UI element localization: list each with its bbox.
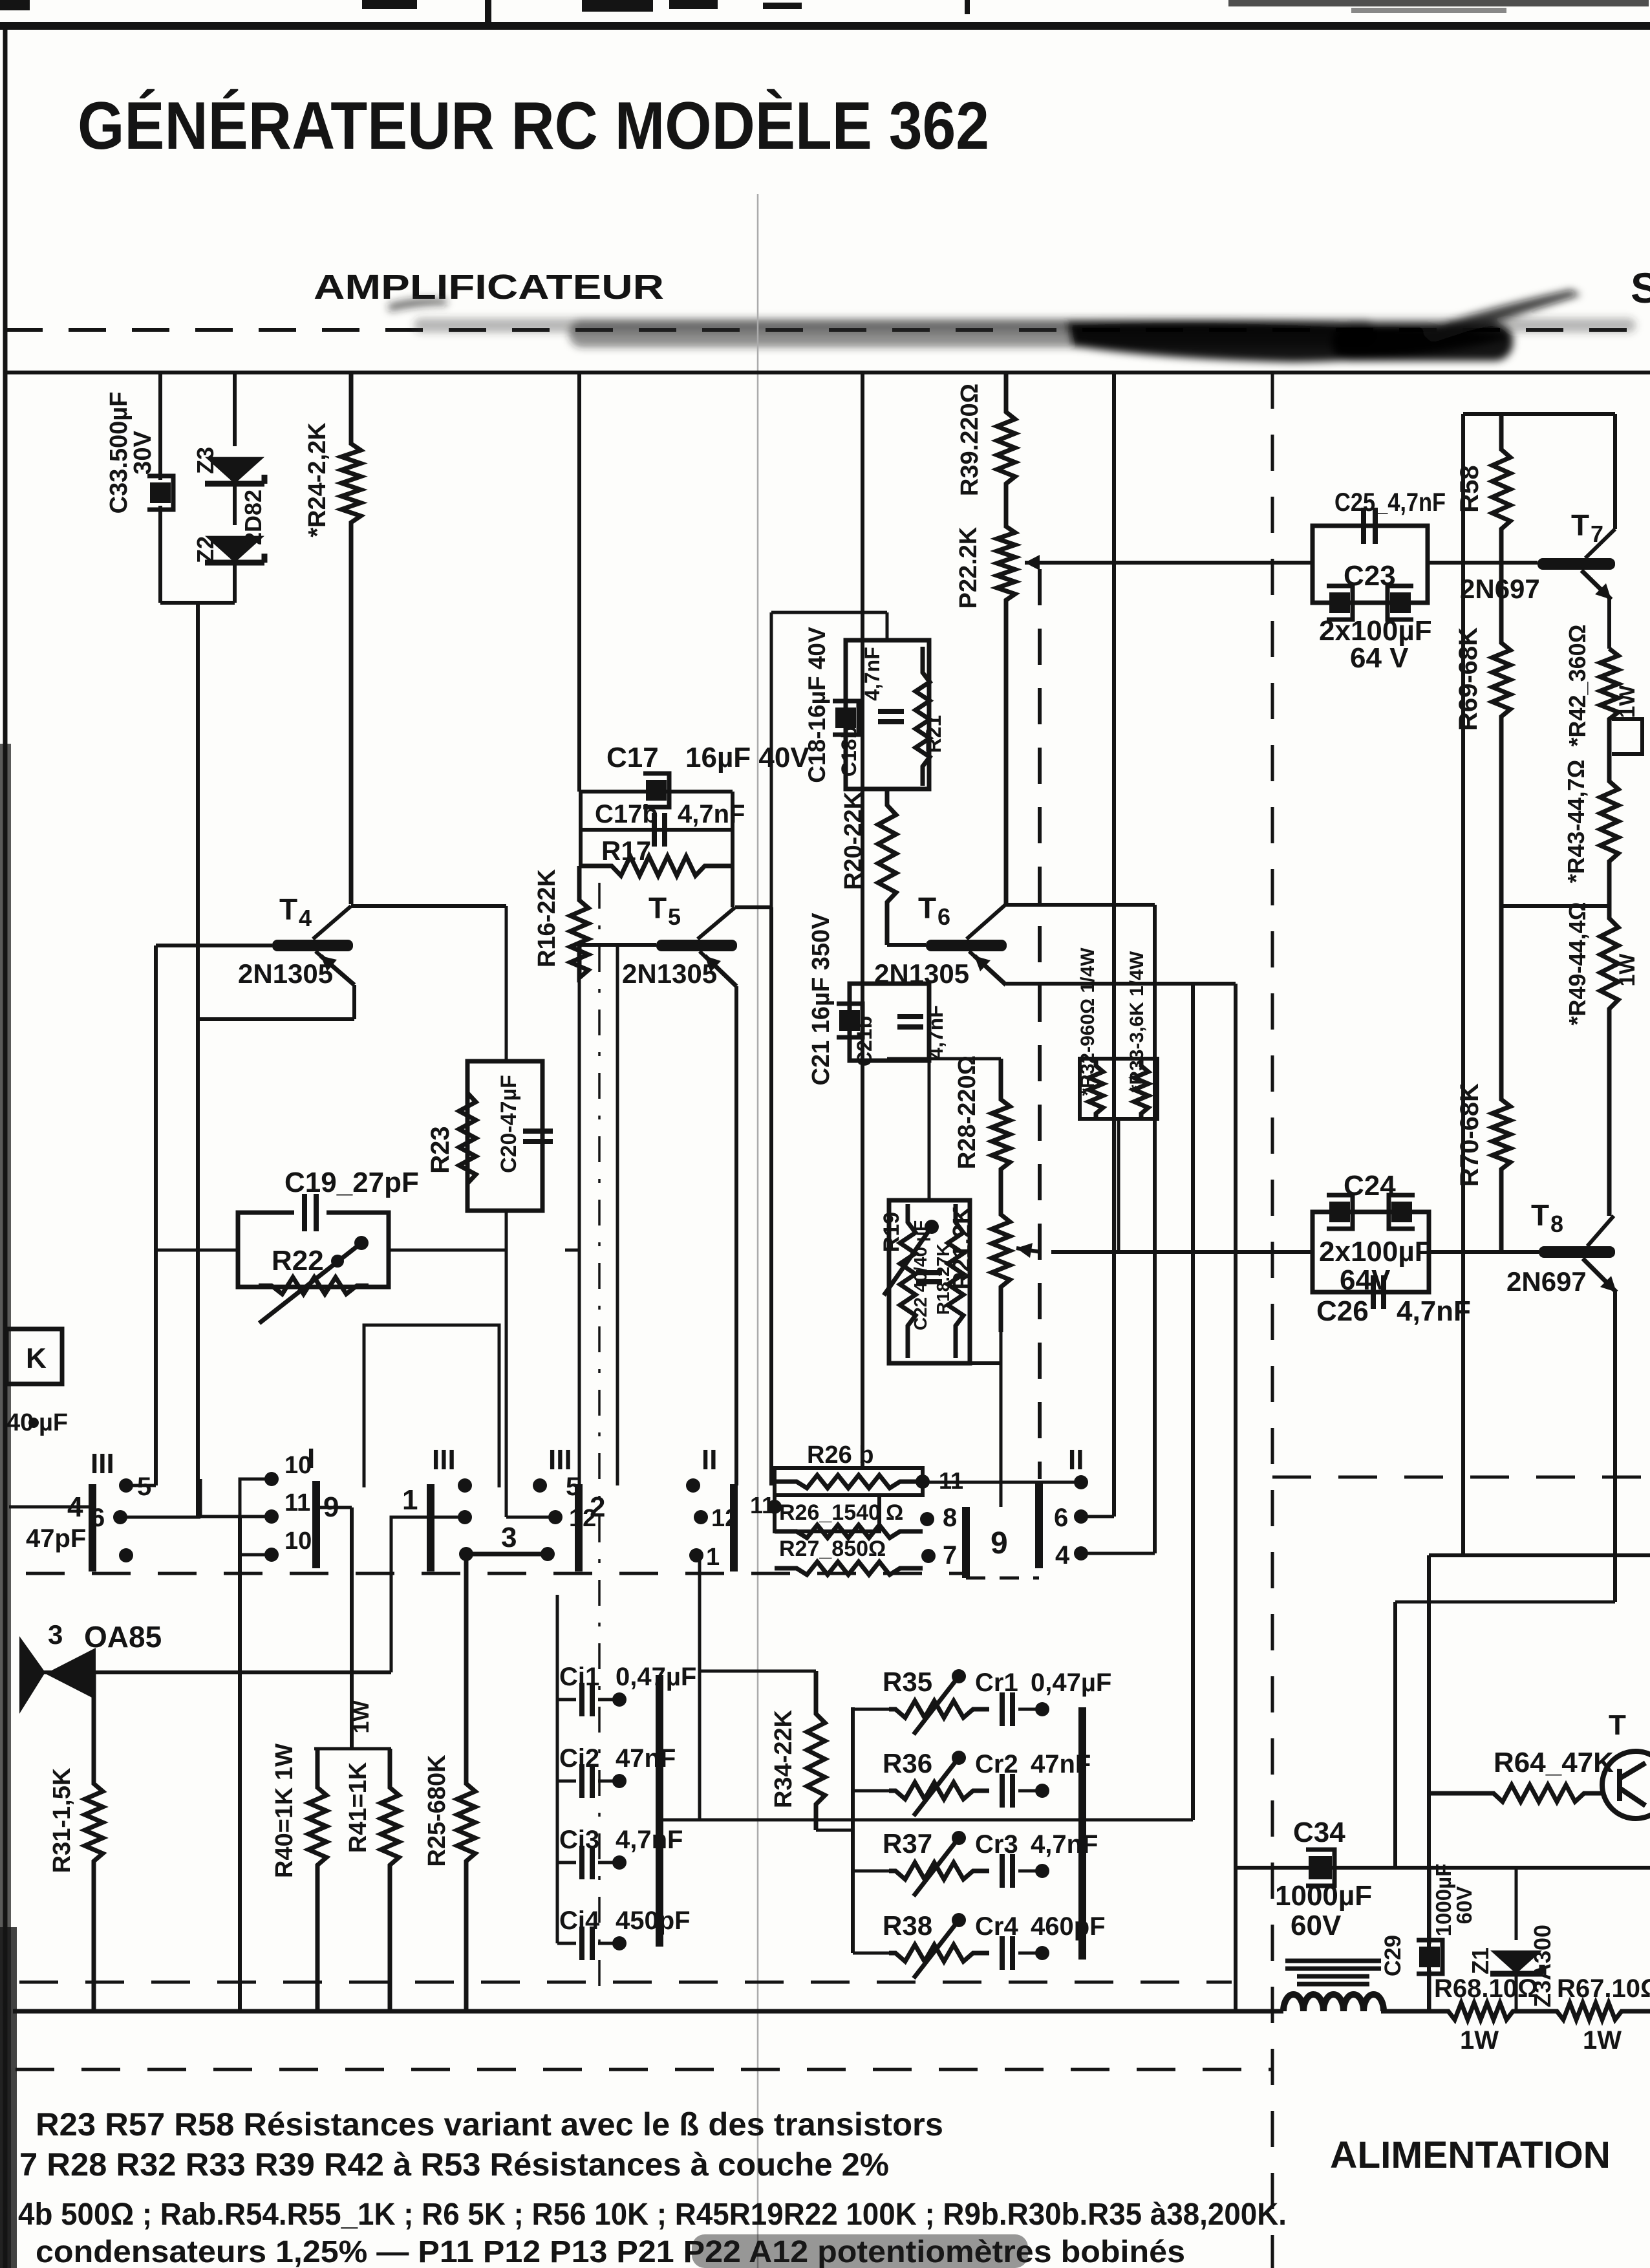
scan blob top-left [0,0,30,10]
svg-text:1W: 1W [1583,2026,1622,2055]
resistor R69 68K [1492,563,1510,906]
resistor R20 22K [878,789,896,945]
transistor T6 2N1305 [926,940,1007,951]
svg-text:C20-47µF: C20-47µF [497,1075,521,1173]
svg-text:3: 3 [501,1522,517,1553]
svg-text:R16-22K: R16-22K [533,869,561,967]
wire C21 box bottom to R28 tie [886,1059,889,1061]
wire T7 emitter [1581,570,1611,599]
svg-text:*R43-44,7Ω: *R43-44,7Ω [1563,760,1589,883]
trimmer R22 with C19 27pF box [238,1213,389,1287]
svg-text:C18b: C18b [837,726,861,777]
wire T7 cell left edge [1461,414,1465,1555]
zener Z1 3A300 [1515,1868,1518,1940]
capacitor Ci2 47nF [557,1780,576,1783]
wire T4 base [156,944,272,947]
svg-text:R28-220Ω: R28-220Ω [954,1055,981,1169]
svg-text:OA85: OA85 [84,1620,162,1654]
resistor R70 68K [1492,906,1510,1252]
capacitor C23 cells [1329,592,1350,613]
svg-text:K: K [26,1343,47,1374]
svg-text:*R24-2,2K: *R24-2,2K [304,422,331,537]
svg-text:R58: R58 [1455,465,1484,512]
capacitor C18 (electrolytic) [835,707,856,728]
resistor R23 [459,1061,476,1211]
resistor R18 27K [948,1204,963,1358]
svg-text:*R49-44,4Ω: *R49-44,4Ω [1564,902,1591,1026]
capacitor C20 47pF [523,1131,553,1141]
svg-text:III: III [548,1444,572,1476]
resistor R68 10Ω 1W [1430,2003,1527,2020]
potentiometer R21 2K [992,1203,1010,1332]
svg-text:4b 500Ω ; Rab.R54.R55_1K ; R6: 4b 500Ω ; Rab.R54.R55_1K ; R6 5K ; R56 1… [18,2198,1287,2232]
wire T6 collector [967,905,1005,939]
resistor R67 10Ω 1W [1527,2003,1650,2020]
contact 3 link [459,1547,473,1561]
wire C33 branch [158,373,162,480]
svg-text:R26_1540: R26_1540 [779,1500,881,1525]
svg-text:Z2: Z2 [192,536,219,563]
svg-text:1W: 1W [349,1700,374,1734]
svg-text:Ci3: Ci3 [559,1826,599,1854]
wire ALIMENTATION box left edge [1427,1555,1431,2011]
svg-text:C29: C29 [1380,1935,1406,1976]
svg-text:R38: R38 [883,1910,932,1941]
svg-text:III: III [91,1448,114,1480]
resistor R32b 960Ω box [1080,1059,1157,1119]
scan marks top edge [362,0,417,9]
potentiometer R19 [900,1204,916,1358]
svg-text:C34: C34 [1293,1817,1345,1848]
svg-text:C18-16µF 40V: C18-16µF 40V [804,627,830,783]
svg-text:11: 11 [750,1492,775,1518]
svg-text:C21 16µF 350V: C21 16µF 350V [808,913,835,1086]
wire drop x2158 [1393,1602,1397,1868]
transistor T7 2N697 [1537,558,1615,570]
wire T8 collector [1587,1216,1614,1246]
svg-text:10: 10 [284,1452,312,1479]
wire emitter bottom tie [1395,1601,1615,1604]
svg-text:11: 11 [284,1489,310,1517]
svg-text:R69-68K: R69-68K [1454,627,1483,731]
svg-text:5: 5 [668,903,681,930]
svg-text:16µF 40V: 16µF 40V [685,742,809,773]
svg-text:64 V: 64 V [1350,642,1409,674]
wire OA85 node y2586 [23,1670,391,1674]
svg-text:T: T [279,892,297,926]
capacitor C24 2x100µF 64V box [1312,1212,1429,1292]
wire T8 emitter [1583,1258,1616,1292]
box around switch III-b [364,1325,499,1487]
svg-text:Ci4: Ci4 [559,1906,600,1935]
svg-text:30V: 30V [129,431,156,475]
svg-text:R36: R36 [883,1748,932,1778]
wire T6 emitter rail right [1006,982,1236,986]
svg-text:R21: R21 [922,715,945,753]
dashed boundary y3200 [16,2068,1272,2071]
capacitor C18 16µF 40V box [846,640,929,789]
svg-text:47pF: 47pF [26,1524,86,1553]
wire horizontal y2814 [659,1819,1193,1822]
dashed vertical x1968 [1271,373,1274,2268]
wire T6 collector rail right [1005,903,1155,907]
svg-text:Ci2: Ci2 [559,1744,599,1773]
smudge over note line 4 [692,2234,1028,2268]
wire R23 box feed [505,906,508,1061]
svg-text:2N1305: 2N1305 [238,958,333,989]
wire R34 bottom to Cr box [816,1829,853,1832]
svg-text:R26 b: R26 b [807,1442,873,1469]
dash-dot vertical x927 [598,883,601,1992]
wire T5 base [579,943,656,947]
wire rail to C17 box left [577,373,581,792]
wire T6 emitter [969,951,1006,985]
resistor R18 in C18 box [916,647,930,786]
wire contact6 to x1723 [1081,1515,1114,1518]
resistor R22 variable [259,1277,369,1294]
wire T4 collector rail [351,904,506,908]
wire contact1 to OA85 node [391,1517,465,1672]
resistor R35 variable with capacitor Cr1 0,47µF [853,1708,889,1711]
resistor R64 47K [1429,1785,1603,1802]
resistor R43 44,7Ω [1600,776,1618,906]
zener Z3 [205,457,264,484]
dashed boundary y2284 right [1272,1476,1650,1479]
wire 47pF input [9,1506,92,1509]
wire C21 to R19 box [928,1061,931,1200]
wire T4 emitter tie [198,1017,354,1021]
wire R34 top tie [700,1670,816,1673]
wire R19 box bottom to R21 column [970,1361,1001,1365]
svg-text:1W: 1W [1615,953,1640,987]
capacitor C22 40/40µF [916,1273,942,1282]
wire contact 5 to x241 [126,1484,156,1487]
svg-text:C22 40/40 µF: C22 40/40 µF [910,1220,930,1330]
wire base feed down to T4 [196,603,200,1517]
transistor T10 (circle) [1602,1751,1650,1819]
wire T5 emitter [700,951,736,986]
wire T7 cell top [1463,412,1615,416]
resistor R49 44,4Ω 1W [1600,906,1618,1216]
svg-text:460pF: 460pF [1031,1912,1106,1941]
svg-text:AMPLIFICATEUR: AMPLIFICATEUR [314,268,664,307]
resistor R42 360Ω 1W [1600,649,1618,776]
wire C17 box right edge [731,792,734,866]
svg-text:450pF: 450pF [616,1906,691,1935]
bus bar Cr outputs [1078,1707,1086,1960]
wire Cr box left edge [851,1707,855,1953]
wire T4 base corner down [154,945,158,1485]
svg-text:2x100µF: 2x100µF [1319,1236,1432,1268]
wire x371 drop to rail [238,1517,242,2011]
resistor R40 1K 1W [308,1749,327,2011]
svg-text:Cr4: Cr4 [975,1912,1018,1941]
svg-text:C26: C26 [1316,1295,1369,1327]
svg-text:T: T [918,891,936,925]
svg-text:Z3: Z3 [192,447,219,474]
wire drop x1786 to contact 4 [1153,905,1157,1553]
capacitor Ci4 450pF [557,1942,576,1945]
svg-text:R67.10Ω: R67.10Ω [1557,1974,1650,2003]
svg-text:60V: 60V [1452,1886,1476,1925]
resistor R31 1,5K [85,1672,103,2011]
wire T4 emitter [316,951,354,985]
svg-text:R34-22K: R34-22K [770,1709,797,1808]
svg-text:4,7nF: 4,7nF [616,1826,683,1854]
svg-text:R64_47K: R64_47K [1494,1747,1614,1778]
resistor R16 22K [570,866,588,978]
wire R22 node rail y1933 [156,1249,238,1252]
capacitor C17b 4,7nF [581,828,733,832]
svg-text:*R32-960Ω 1/4W: *R32-960Ω 1/4W [1077,947,1098,1096]
svg-text:5: 5 [566,1473,580,1501]
svg-text:2N697: 2N697 [1506,1266,1587,1297]
capacitor Ci3 4,7nF [557,1861,576,1864]
wire emitter drop [1607,598,1611,649]
transistor T5 2N1305 [656,940,737,951]
transistor T8 2N697 [1539,1246,1615,1258]
svg-text:R23 R57 R58 Résistances v: R23 R57 R58 Résistances variant avec le … [36,2106,943,2143]
svg-text:R18.27K: R18.27K [933,1244,953,1315]
resistor R58 [1492,414,1510,563]
capacitor C21 (electrolytic) [839,1010,860,1031]
svg-text:R70-68K: R70-68K [1455,1083,1484,1187]
capacitor Ci1 0,47µF [557,1698,576,1701]
svg-text:R31-1,5K: R31-1,5K [48,1767,76,1873]
svg-text:1: 1 [402,1484,418,1516]
connector tab right edge [1612,719,1642,754]
svg-text:µF: µF [39,1409,68,1436]
bus bar Ci outputs [656,1675,663,1947]
wire Ci feed vertical [556,1595,559,1943]
svg-text:C17b: C17b [595,800,658,828]
potentiometer P22 2K [997,521,1015,905]
svg-text:4: 4 [1055,1541,1070,1570]
dashed boundary y2433 [26,1572,963,1575]
wire bottom rail [13,2009,1283,2014]
resistor R36 variable with capacitor Cr2 47nF [853,1789,889,1793]
wire T4 collector [313,906,351,939]
scan tick marks [485,0,491,22]
resistor R19 C22 box [889,1200,970,1363]
center fold crease [757,194,759,2268]
svg-text:R19: R19 [879,1212,904,1252]
capacitor C19 [294,1194,327,1230]
wire contact4 to x1786 [1081,1552,1155,1555]
svg-text:P22.2K: P22.2K [955,526,982,609]
svg-text:S: S [1631,264,1650,312]
wire C17 box left edge [579,792,583,866]
svg-text:R37: R37 [883,1828,932,1859]
capacitor C26 4,7nF [1373,1275,1384,1309]
svg-text:Ci1: Ci1 [559,1663,599,1691]
svg-text:10: 10 [284,1528,312,1555]
svg-text:7: 7 [943,1541,957,1570]
wire x544 drop [350,1507,354,1749]
wire T5 base left corner [616,945,619,1485]
resistor R24 2,2K [341,373,361,904]
capacitor C17 (electrolytic) [646,780,667,801]
svg-text:R40=1K 1W: R40=1K 1W [271,1744,298,1878]
svg-text:1W: 1W [1615,685,1640,718]
resistor R41 1K 1W [381,1749,399,2011]
switch bars with 9 [962,1507,970,1578]
svg-text:3: 3 [48,1619,63,1650]
svg-text:C21b: C21b [853,1016,876,1066]
wire C18 feed from T5 collector [770,612,773,907]
svg-text:8: 8 [1550,1211,1563,1237]
resistor R25 680K [457,1554,475,2011]
svg-text:4,7nF: 4,7nF [1031,1830,1098,1859]
wiper arrow into P22 [1025,561,1312,565]
svg-text:4: 4 [299,905,312,931]
capacitor C29 1000µF 60V [1428,1868,1431,1944]
wire contact1 drop to y2814 [698,1555,702,1820]
wire T5 collector drop [769,907,773,1485]
capacitor C24 cells [1329,1202,1350,1222]
svg-text:7 R28 R32 R33 R39 R42 à R53: 7 R28 R32 R33 R39 R42 à R53 Résistances … [19,2146,889,2183]
svg-text:Cr3: Cr3 [975,1830,1018,1859]
wire zener box bottom tie [160,601,235,605]
resistor block R26b R26 R27 [775,1468,923,1495]
resistor R17 [581,856,733,876]
connector box left edge [6,1329,62,1384]
wire R16 column down [578,978,581,1484]
resistor R28 220Ω [992,1059,1010,1203]
svg-text:0,47µF: 0,47µF [1031,1669,1111,1697]
svg-text:*R33-3,6K 1/4W: *R33-3,6K 1/4W [1126,951,1148,1092]
svg-text:Cr2: Cr2 [975,1750,1018,1778]
svg-text:8: 8 [943,1504,957,1532]
wire tie C21-R28 [887,1057,1001,1061]
resistor R38 variable with capacitor Cr4 460pF [853,1952,889,1955]
svg-text:1000µF: 1000µF [1275,1880,1372,1912]
wire long vertical x1723 [1112,373,1116,1517]
svg-text:60V: 60V [1291,1910,1342,1941]
wire T6 base [887,943,926,947]
svg-text:R17: R17 [601,836,651,866]
svg-text:2N1305: 2N1305 [622,958,717,989]
svg-text:2D82: 2D82 [240,490,266,545]
wire vertical x1334 [861,373,864,1469]
svg-text:1W: 1W [1460,2026,1499,2055]
svg-text:4,7nF: 4,7nF [1397,1295,1471,1327]
wire R40 R41 feed tie [314,1747,391,1751]
svg-text:R68.10Ω: R68.10Ω [1434,1974,1538,2003]
wire bar I to x544 [316,1506,352,1509]
capacitor C21b 4,7nF [897,1017,923,1027]
svg-text:T: T [1531,1198,1549,1232]
resistor R23 with C20 47pF box [467,1061,542,1211]
svg-text:R22: R22 [272,1245,324,1277]
svg-text:1: 1 [706,1544,720,1571]
svg-text:T: T [1571,508,1589,542]
wire top supply rail [5,371,1650,374]
svg-text:4,7nF: 4,7nF [678,800,745,828]
wire base bus to T7 [1428,561,1537,565]
wire signal bus y1936 [1051,1250,1312,1254]
resistor R34 22K [807,1671,825,1830]
wire II-b top to x1334 [923,1481,1081,1484]
wire contact10 bottom corner [240,1526,272,1555]
svg-text:47nF: 47nF [616,1744,676,1773]
wire R21 column down to switch [1000,1332,1003,1507]
wire R32 box bottom drop [1117,1119,1120,1252]
wire T5 collector [698,907,735,939]
svg-text:R23: R23 [426,1126,455,1173]
dashed boundary y3065 [19,1981,1232,1984]
wire contact10 top corner [240,1479,272,1517]
svg-text:III: III [432,1444,456,1476]
svg-text:GÉNÉRATEUR RC MODÈLE 362: GÉNÉRATEUR RC MODÈLE 362 [78,89,989,164]
wire drop x1911 to transformer [1234,984,1237,2011]
svg-text:R41=1K: R41=1K [345,1762,372,1853]
wire contact 6 stub [120,1516,200,1519]
svg-text:Ω: Ω [886,1500,903,1525]
svg-text:*R42_360Ω: *R42_360Ω [1564,625,1591,747]
capacitor C34 1000µF 60V [1309,1856,1332,1879]
border left rule [3,26,8,2268]
svg-text:C19_27pF: C19_27pF [284,1167,419,1198]
wire x783 to contact12 [506,1516,555,1519]
svg-text:6: 6 [1054,1504,1068,1532]
resistor R39 220Ω [997,373,1015,521]
transistor T4 2N1305 [272,940,353,951]
zener Z2 [205,536,264,563]
wire T8 emitter drop [1613,1291,1617,1602]
svg-text:C25_4,7nF: C25_4,7nF [1334,488,1446,517]
svg-text:R39.220Ω: R39.220Ω [956,383,983,496]
wire DC bus y2888 [1236,1866,1650,1870]
svg-text:T: T [1609,1709,1626,1741]
wire T7 collector [1585,529,1615,558]
svg-text:R35: R35 [883,1667,932,1697]
svg-text:R27_850Ω: R27_850Ω [779,1537,886,1561]
section boundary dashed line [5,328,1650,332]
svg-text:C17: C17 [606,742,659,773]
svg-text:Cr1: Cr1 [975,1669,1018,1697]
svg-text:6: 6 [937,903,950,930]
transformer winding [1285,1959,1381,1963]
svg-text:4,7nF: 4,7nF [924,1005,947,1059]
svg-text:II: II [1068,1444,1084,1476]
wire contact11 [198,1515,272,1518]
dashed vertical x1608 [1038,569,1042,1479]
wire tie y1401 [1501,904,1609,908]
capacitor C23 2x100µF 64V box [1312,526,1428,603]
wire ALIMENTATION box top [1429,1553,1650,1557]
svg-text:Z1: Z1 [1467,1947,1494,1974]
border top rule [0,22,1650,30]
wire zener branch [233,373,237,446]
wire bus to T8 [1429,1250,1539,1254]
svg-text:6: 6 [91,1504,105,1532]
capacitor C33 500µF 30V [150,482,171,503]
wire C18 top lead [886,612,889,640]
svg-text:R25-680K: R25-680K [423,1755,451,1867]
wiper arrow into R21 [1016,1248,1041,1252]
svg-text:12: 12 [711,1505,738,1532]
svg-text:C33.500µF: C33.500µF [105,392,133,514]
svg-text:9: 9 [991,1526,1008,1561]
capacitor C18b 4,7nF [878,711,904,722]
resistor R37 variable with capacitor Cr3 4,7nF [853,1870,889,1873]
svg-text:T: T [648,891,667,925]
svg-text:II: II [702,1444,717,1476]
svg-text:2: 2 [590,1491,605,1523]
svg-text:ALIMENTATION: ALIMENTATION [1330,2134,1611,2176]
wire drop x1845 [1191,984,1195,1820]
